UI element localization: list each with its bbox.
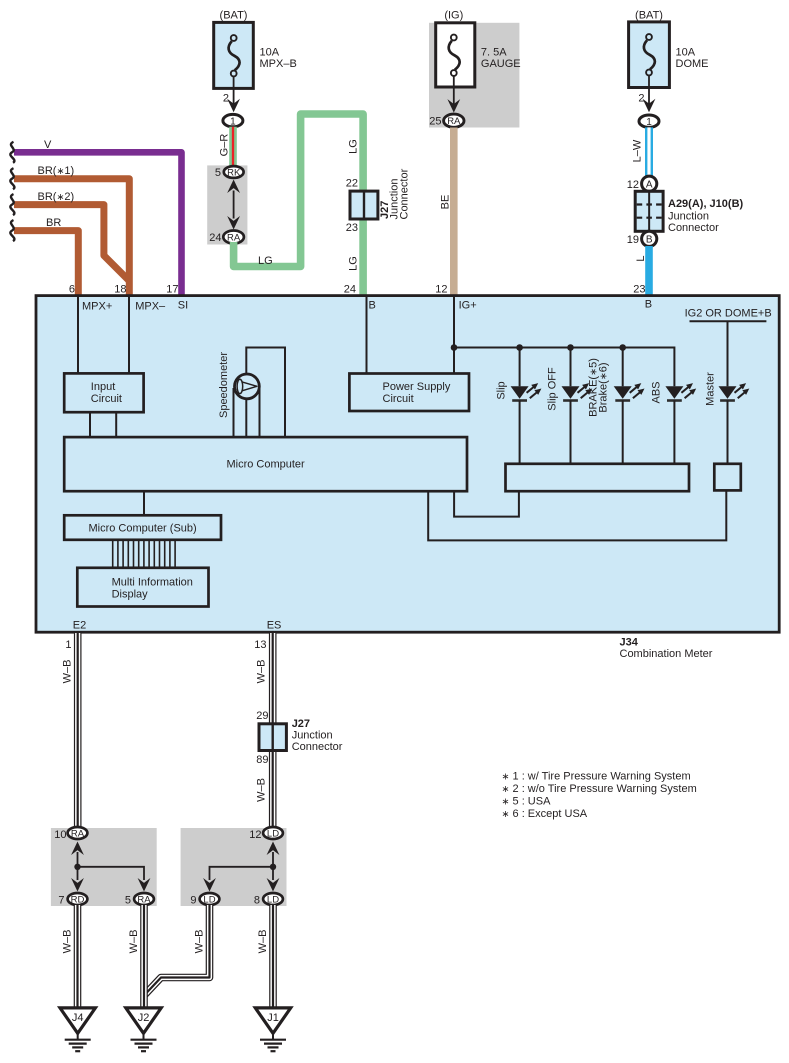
svg-text:7: 7 [58, 895, 64, 907]
junction node slip [516, 344, 523, 351]
svg-text:BR(∗2): BR(∗2) [38, 191, 75, 203]
wire G-R [229, 127, 237, 167]
ground symbol J2 [131, 1033, 157, 1051]
svg-text:Display: Display [112, 589, 149, 601]
svg-text:∗ 5 : USA: ∗ 5 : USA [502, 796, 552, 808]
wire BR(*2) pin 18 branch [14, 205, 129, 281]
svg-text:13: 13 [254, 639, 266, 651]
svg-text:MPX–: MPX– [135, 301, 166, 313]
svg-text:MPX–B: MPX–B [260, 58, 297, 70]
wire B(24) to power supply [366, 296, 368, 374]
svg-text:W–B: W–B [257, 930, 269, 954]
wire micro computer to driver block [454, 491, 519, 516]
arrow into RA [447, 99, 460, 113]
svg-text:∗ 1 : w/ Tire Pressure Warning: ∗ 1 : w/ Tire Pressure Warning System [502, 771, 691, 783]
svg-text:Circuit: Circuit [91, 393, 122, 405]
svg-text:10A: 10A [260, 47, 280, 59]
break squiggle on wire BR [10, 220, 14, 241]
svg-text:ES: ES [267, 620, 282, 632]
svg-text:LG: LG [258, 255, 273, 267]
svg-text:BE: BE [440, 195, 452, 210]
wire to slip off LED [570, 348, 572, 387]
arrow down to RA5 [138, 878, 151, 892]
svg-text:∗ 2 : w/o Tire Pressure Warnin: ∗ 2 : w/o Tire Pressure Warning System [502, 783, 697, 795]
svg-text:(BAT): (BAT) [635, 10, 663, 22]
svg-text:5: 5 [125, 895, 131, 907]
svg-text:W–B: W–B [128, 930, 140, 954]
svg-text:W–B: W–B [62, 930, 74, 954]
LED brake [614, 383, 645, 400]
ground connector J4 [60, 1008, 95, 1033]
svg-text:Connector: Connector [668, 222, 719, 234]
svg-text:Brake(∗6): Brake(∗6) [598, 362, 610, 412]
svg-text:Input: Input [91, 381, 115, 393]
svg-text:W–B: W–B [256, 778, 268, 802]
svg-text:10A: 10A [676, 47, 696, 59]
wire junction to RD7 [77, 867, 79, 880]
LED master [719, 383, 750, 400]
svg-text:J2: J2 [138, 1012, 150, 1024]
junction node brake [619, 344, 626, 351]
arrow down to LD9 [203, 878, 216, 892]
wire L [645, 246, 653, 297]
LED driver block [506, 464, 690, 491]
wire micro computer to sub [143, 491, 145, 515]
svg-text:5: 5 [215, 167, 221, 179]
wire to slip LED [519, 348, 521, 387]
junction node slip off [567, 344, 574, 351]
LED slip off [562, 383, 593, 400]
svg-text:RA: RA [447, 116, 461, 127]
fuse 10A MPX-B box [214, 22, 254, 88]
wire W-B from RD7 to J4 [74, 905, 82, 1008]
svg-text:LD: LD [203, 894, 215, 905]
svg-text:RK: RK [227, 167, 241, 178]
combination meter J34 outline [36, 296, 779, 633]
junction connector J27 (top) [350, 191, 378, 219]
arrow down to LD8 [267, 878, 280, 892]
wire MPX+ to input circuit [77, 296, 79, 374]
svg-text:Micro Computer: Micro Computer [226, 459, 305, 471]
terminal RA pin 10 [68, 827, 88, 839]
relay block shading (left) [51, 828, 157, 906]
svg-text:L–W: L–W [632, 139, 644, 162]
terminal B pin 19 [642, 231, 657, 246]
svg-text:10: 10 [54, 829, 66, 841]
svg-text:12: 12 [435, 284, 447, 296]
svg-text:B: B [369, 300, 376, 312]
LED slip [511, 383, 542, 400]
wire to brake LED [622, 348, 624, 387]
ground symbol J4 [65, 1033, 91, 1051]
svg-text:B: B [646, 235, 653, 246]
wire fuse to terminal 1 [233, 76, 235, 108]
svg-text:IG2 OR DOME+B: IG2 OR DOME+B [685, 308, 772, 320]
terminal RK pin 5 [224, 166, 244, 178]
junction node [270, 864, 276, 870]
junction connector J27 (bottom) [259, 724, 286, 751]
svg-text:Junction: Junction [292, 730, 333, 742]
terminal 1 [639, 115, 659, 127]
ground symbol J1 [260, 1033, 286, 1051]
wire fuse to terminal RA [453, 76, 455, 109]
wire W-B from ES [269, 633, 277, 829]
junction node on IG+ [451, 344, 458, 351]
arrow into terminal 1 [643, 99, 656, 113]
svg-text:2: 2 [638, 93, 644, 105]
svg-text:W–B: W–B [62, 660, 74, 684]
svg-text:Combination Meter: Combination Meter [620, 648, 713, 660]
terminal LD pin 12 [263, 827, 283, 839]
svg-text:∗ 6 : Except USA: ∗ 6 : Except USA [502, 808, 588, 820]
svg-text:LD: LD [267, 828, 279, 839]
wire LD12 to junction [272, 852, 274, 867]
wire to master LED [727, 321, 729, 386]
wire V (violet) pin 17 [14, 152, 182, 297]
svg-text:RA: RA [227, 232, 241, 243]
svg-text:J4: J4 [72, 1012, 84, 1024]
svg-text:24: 24 [344, 284, 356, 296]
svg-text:1: 1 [230, 116, 236, 127]
svg-text:LD: LD [267, 894, 279, 905]
svg-text:Slip: Slip [496, 381, 508, 399]
svg-text:Slip OFF: Slip OFF [547, 367, 559, 411]
terminal LD pin 8 [263, 893, 283, 905]
svg-text:RA: RA [137, 894, 151, 905]
svg-text:J27: J27 [292, 718, 310, 730]
svg-text:BR: BR [46, 217, 61, 229]
wire MPX- to input circuit [128, 296, 130, 374]
svg-text:SI: SI [178, 300, 188, 312]
fuse 7.5A GAUGE shading [429, 23, 519, 128]
svg-text:2: 2 [223, 93, 229, 105]
svg-text:GAUGE: GAUGE [481, 58, 521, 70]
svg-text:22: 22 [346, 178, 358, 190]
break squiggle on wire V [10, 142, 14, 163]
input circuit block [64, 373, 143, 412]
arrow up to RA10 [71, 842, 84, 856]
relay block shading (right) [181, 828, 287, 906]
wire BR pin 6 [14, 231, 78, 297]
svg-text:J34: J34 [620, 637, 639, 649]
svg-text:IG+: IG+ [459, 300, 477, 312]
svg-text:18: 18 [114, 284, 126, 296]
wire junction to RA5 [78, 867, 145, 880]
svg-text:BR(∗1): BR(∗1) [38, 165, 75, 177]
break squiggle on wire BR(*1) [10, 168, 14, 189]
svg-text:A29(A), J10(B): A29(A), J10(B) [668, 198, 744, 210]
svg-text:LG: LG [348, 256, 360, 271]
wire fuse to terminal 1 [648, 76, 650, 108]
svg-text:RA: RA [71, 828, 85, 839]
svg-text:(BAT): (BAT) [220, 10, 248, 22]
svg-text:29: 29 [256, 710, 268, 722]
fuse 7.5A GAUGE box [436, 23, 475, 87]
svg-text:Circuit: Circuit [383, 393, 414, 405]
svg-text:23: 23 [346, 222, 358, 234]
svg-text:W–B: W–B [256, 660, 268, 684]
wire W-B from LD9 merging to J2 [145, 905, 210, 995]
svg-text:23: 23 [633, 284, 645, 296]
speedometer wires [233, 388, 235, 437]
svg-text:24: 24 [209, 232, 221, 244]
break squiggle on wire BR(*2) [10, 194, 14, 215]
svg-text:J1: J1 [267, 1012, 279, 1024]
wire W-B from E2 [74, 633, 82, 829]
bus hatch between sub and display [113, 540, 175, 568]
svg-text:12: 12 [627, 179, 639, 191]
svg-text:Power Supply: Power Supply [383, 381, 451, 393]
power supply circuit block [349, 374, 469, 412]
micro computer block [64, 437, 467, 491]
svg-text:19: 19 [627, 234, 639, 246]
junction node [74, 864, 80, 870]
wire W-B from LD8 to J1 [269, 905, 277, 1008]
speedometer symbol [235, 374, 260, 399]
terminal A pin 12 [642, 176, 657, 191]
arrow up to RK [227, 180, 240, 194]
svg-text:MPX+: MPX+ [82, 301, 112, 313]
wire IG+ down [453, 296, 455, 374]
wire junction to LD9 [210, 867, 274, 880]
svg-text:7. 5A: 7. 5A [481, 47, 507, 59]
arrow into terminal 1 [227, 99, 240, 113]
multi information display block [77, 568, 208, 607]
wires input circuit to micro computer [89, 412, 91, 437]
arrow down to RA [227, 216, 240, 230]
svg-text:Speedometer: Speedometer [218, 352, 230, 418]
micro computer (sub) block [64, 515, 221, 540]
wire micro computer to master driver [428, 490, 726, 540]
wire RA10 to junction [77, 852, 79, 867]
terminal 1 [223, 114, 243, 126]
svg-text:89: 89 [256, 754, 268, 766]
svg-text:Junction: Junction [668, 211, 709, 223]
wire BE [450, 128, 458, 298]
svg-text:1: 1 [646, 117, 652, 128]
terminal RD pin 7 [68, 893, 88, 905]
ground connector J1 [255, 1008, 290, 1033]
arrow up to LD12 [267, 842, 280, 856]
svg-text:6: 6 [69, 284, 75, 296]
LED ABS [665, 383, 696, 400]
wire W-B from RA5 to J2 [140, 905, 148, 1008]
fuse 10A DOME box [629, 22, 670, 88]
svg-text:RD: RD [71, 894, 85, 905]
svg-text:(IG): (IG) [444, 10, 463, 22]
wires LEDs to driver block [519, 401, 521, 464]
svg-text:B: B [645, 299, 652, 311]
terminal RA pin 24 [223, 231, 244, 244]
svg-text:W–B: W–B [194, 930, 206, 954]
svg-text:8: 8 [254, 895, 260, 907]
terminal RA pin 25 [444, 114, 464, 127]
svg-text:DOME: DOME [676, 58, 709, 70]
svg-text:V: V [44, 139, 52, 151]
svg-text:Multi Information: Multi Information [112, 577, 193, 589]
svg-text:A: A [646, 179, 653, 190]
svg-text:LG: LG [348, 139, 360, 154]
junction connector A29(A),J10(B) [635, 191, 663, 231]
wire LG from RA to pin 24 of J34 [234, 114, 364, 297]
wire RK to RA [233, 191, 235, 219]
svg-text:ABS: ABS [651, 381, 663, 403]
fuse element symbol [449, 35, 460, 76]
wire junction to LD8 [272, 867, 274, 880]
terminal RA pin 5 [134, 893, 154, 905]
relay block shading for RK/RA terminals [207, 165, 247, 244]
svg-text:Connector: Connector [292, 741, 343, 753]
ground connector J2 [126, 1008, 161, 1033]
arrow down to RD7 [71, 878, 84, 892]
fuse element symbol [229, 35, 240, 76]
svg-text:9: 9 [190, 895, 196, 907]
svg-text:17: 17 [166, 284, 178, 296]
svg-text:Master: Master [705, 372, 717, 406]
svg-text:G–R: G–R [219, 134, 231, 157]
master driver block [714, 464, 741, 491]
fuse element symbol [644, 34, 655, 75]
svg-text:1: 1 [65, 639, 71, 651]
wire L-W [645, 127, 653, 178]
LED supply rail [454, 348, 674, 387]
wire BR(*1) pin 18 [14, 179, 129, 297]
svg-text:Connector: Connector [399, 168, 411, 219]
svg-text:E2: E2 [73, 620, 86, 632]
svg-text:12: 12 [249, 829, 261, 841]
svg-text:25: 25 [429, 116, 441, 128]
terminal LD pin 9 [200, 893, 220, 905]
svg-text:Micro Computer (Sub): Micro Computer (Sub) [88, 523, 196, 535]
svg-text:L: L [635, 255, 647, 261]
